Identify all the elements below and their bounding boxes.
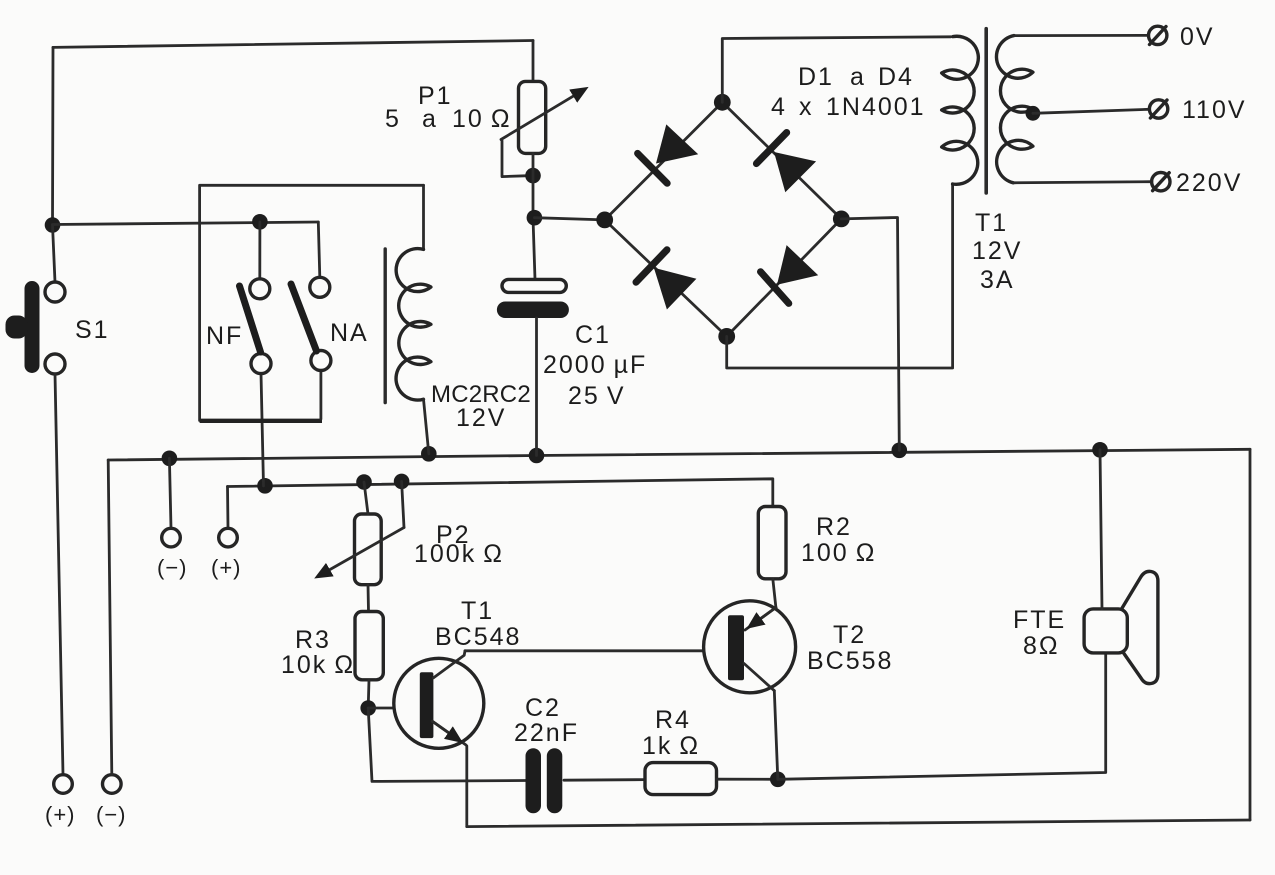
wire NF bottom to rail2 [261,374,264,486]
svg-text:10k Ω: 10k Ω [281,651,355,679]
wire node A down to S1 [53,225,56,282]
node bridge right [833,211,850,228]
node A junction S1/relay feed [45,217,61,233]
svg-text:4: 4 [771,93,787,121]
wire bridge right to rail1 [841,218,899,451]
svg-text:8Ω: 8Ω [1023,632,1060,660]
transformer core [984,29,988,193]
wire to upper (+) terminal [226,487,229,529]
svg-text:3A: 3A [980,266,1015,294]
svg-text:(−): (−) [157,555,188,580]
wire NA bottom lead [319,371,322,420]
wire top into P1 [532,41,535,82]
svg-text:T2: T2 [833,621,866,649]
switch S1 [45,282,65,302]
svg-text:R3: R3 [295,626,331,654]
node bridge top [714,94,731,111]
svg-text:T1: T1 [461,597,494,625]
transformer T1 secondary coil [942,36,979,184]
wire R3 to base node [367,680,371,708]
svg-text:BC548: BC548 [435,623,521,651]
svg-text:220V: 220V [1176,169,1242,197]
capacitor C1 plate bottom [497,302,569,319]
wire rail2 into R2 done above; resistor R2 [758,507,786,579]
svg-text:D4: D4 [878,63,914,91]
svg-text:FTE: FTE [1013,606,1066,634]
wire T1 collector to T2 base [465,649,728,652]
node bridge bottom [718,328,735,345]
svg-text:a: a [422,105,438,133]
wire primary bottom to 220V [1013,182,1152,183]
node DC positive [527,210,543,226]
transformer T1 primary coil [996,36,1032,183]
wire NF top lead [258,222,261,279]
wire T1 emitter down [465,746,468,827]
svg-text:(−): (−) [96,802,127,827]
svg-text:10 Ω: 10 Ω [452,105,512,133]
wire bridge top to secondary [722,37,951,103]
node NF branch [252,214,268,230]
node rail2 P2 top [356,474,372,490]
terminal 220V [1152,173,1170,191]
node rail1 bridge negative [892,443,908,459]
svg-text:12V: 12V [972,237,1022,265]
svg-text:T1: T1 [975,209,1008,237]
wire left vertical rail1 to (-) bottom [108,460,112,775]
node P1 wiper tie [525,168,541,184]
node rail2 NF [257,478,273,494]
terminal 0V [1149,26,1167,44]
wire T2 collector down [774,691,778,780]
wire base node down to C2 [368,708,526,781]
wire positive rail [228,479,773,507]
wire top-left horizontal [53,41,533,48]
terminal (+) upper [219,528,238,547]
node rail2 P2 wiper [394,474,410,490]
svg-text:0V: 0V [1180,23,1215,51]
svg-text:12V: 12V [456,404,506,432]
relay contact NF [250,279,270,299]
relay core bar [384,249,387,403]
node rail1 C1 [529,448,545,464]
svg-text:R2: R2 [816,513,852,541]
relay coil MC2RC2 [396,249,431,400]
speaker FTE [1122,571,1158,683]
wire node to bridge left [534,218,604,220]
diode D1 upper-left [656,124,698,163]
wire R4 to collector node [717,778,778,781]
svg-text:2000 µF: 2000 µF [543,351,647,379]
terminal (-) upper [162,528,181,547]
svg-text:(+): (+) [211,555,242,580]
resistor R3 [355,612,383,680]
svg-text:R4: R4 [655,706,691,734]
node rail1 (-) terminal branch [162,451,178,467]
potentiometer P1 [519,81,546,153]
transistor T1 BC548 [394,658,484,748]
terminal (-) bottom [103,775,122,794]
svg-text:100k Ω: 100k Ω [414,540,504,568]
potentiometer P2 [355,514,382,585]
node primary tap [1026,106,1041,121]
svg-text:C2: C2 [525,694,561,722]
wire right edge vertical [1249,449,1252,820]
wire S1 to bottom (+) terminal [55,374,63,775]
capacitor C2 [526,748,542,813]
wire left vertical top to node A [51,47,54,225]
diode D3 lower-left [654,268,697,310]
wire primary top to 0V [1014,34,1149,37]
capacitor C1 plate top [502,279,566,292]
relay box bottom (thick) [200,419,322,423]
node bridge left [596,212,613,229]
wire R2 to T2 emitter [773,579,776,608]
svg-text:110V: 110V [1182,96,1247,124]
relay coil bottom lead [424,399,429,454]
wire to upper (-) terminal [169,458,171,528]
svg-text:C1: C1 [575,321,611,349]
svg-text:a: a [850,63,866,91]
node rail1 speaker [1092,442,1108,458]
node rail1 relay coil [421,446,437,462]
svg-text:1N4001: 1N4001 [826,93,926,121]
relay coil top lead [422,185,425,249]
relay contact NA [310,277,330,297]
wire collector node to speaker [778,653,1106,779]
node T1 base [360,700,376,716]
wire node A to relay contacts [53,222,319,225]
wire P2 to R3 [367,585,370,612]
wire P1 to C1 [533,153,535,279]
terminal 110V [1149,100,1167,118]
svg-text:NF: NF [206,322,243,350]
node T2 collector [770,772,786,788]
wire tap to 110V [1033,109,1150,113]
diode D2 upper-right [774,152,816,192]
svg-text:1k Ω: 1k Ω [642,732,700,760]
svg-text:NA: NA [330,319,369,347]
resistor R4 [645,763,717,795]
svg-text:D1: D1 [798,63,834,91]
svg-text:22nF: 22nF [514,719,579,747]
svg-text:100 Ω: 100 Ω [801,539,876,567]
svg-text:x: x [799,93,814,121]
wire bridge bottom to secondary bottom [727,184,953,368]
bridge frame wires [605,102,842,336]
wire C1 to rail1 [535,318,538,456]
wire C2 to R4 [564,778,645,781]
svg-text:BC558: BC558 [807,647,893,675]
svg-text:S1: S1 [75,316,110,344]
svg-text:25 V: 25 V [568,382,626,410]
wire NA top lead [318,222,320,277]
relay box left/top [200,185,424,420]
wire bottom return [467,820,1250,827]
diode D4 lower-right [777,245,818,285]
svg-text:5: 5 [385,105,401,133]
wire negative rail [108,449,1250,460]
transistor T2 BC558 [704,601,796,693]
svg-text:(+): (+) [45,802,76,827]
wire base node to T1 [368,707,420,710]
terminal (+) bottom [54,775,73,794]
